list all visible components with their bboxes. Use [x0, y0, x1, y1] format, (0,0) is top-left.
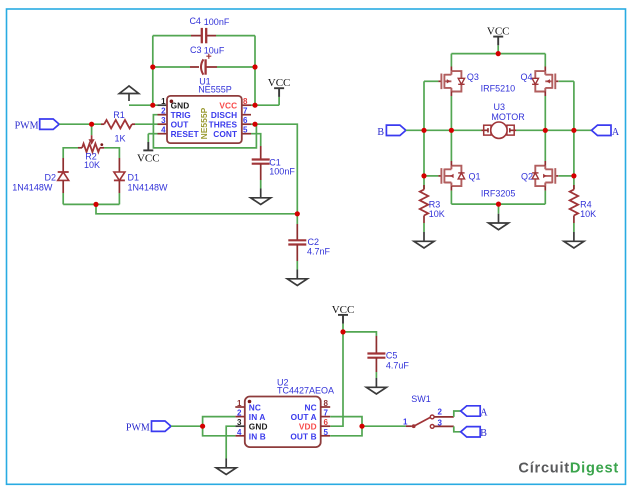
wire C1 to ground — [260, 180, 262, 189]
resistor R1 1K — [104, 120, 132, 128]
svg-text:1: 1 — [403, 417, 408, 426]
wire to motor left — [451, 129, 482, 131]
power VCC (U1 pin8) — [268, 77, 291, 105]
svg-text:CírcuitDigest: CírcuitDigest — [518, 460, 619, 476]
svg-text:MOTOR: MOTOR — [491, 112, 525, 122]
svg-text:C4: C4 — [189, 16, 201, 26]
ground (C2) — [287, 270, 307, 286]
svg-text:Q3: Q3 — [467, 72, 479, 82]
U2 pin 2 stub — [235, 416, 245, 418]
port PWM (driver input) — [152, 421, 172, 431]
wire R1 to OUT — [135, 123, 158, 125]
Q4 source lead — [544, 92, 546, 97]
wire C2 to ground — [296, 261, 298, 270]
U1 pin 6 stub — [242, 123, 251, 125]
motor U3 — [482, 128, 489, 132]
svg-text:1: 1 — [161, 97, 166, 106]
wire motor rail to Q1 — [450, 130, 452, 161]
junction pin1 / loop — [150, 103, 155, 108]
svg-text:GND: GND — [171, 101, 190, 111]
Q3 source lead — [450, 92, 452, 97]
svg-text:A: A — [480, 407, 488, 418]
svg-text:6: 6 — [324, 418, 329, 427]
svg-text:VCC: VCC — [332, 304, 355, 316]
port A (driver) — [461, 406, 481, 416]
junction PWM node — [89, 122, 94, 127]
svg-text:VCC: VCC — [137, 152, 160, 164]
capacitor C3 leads — [190, 66, 217, 68]
U1 pin 5 stub — [242, 133, 251, 135]
svg-text:8: 8 — [243, 97, 248, 106]
svg-text:B: B — [480, 428, 487, 439]
wire to C2 — [296, 214, 298, 224]
capacitor C4 leads — [191, 35, 216, 37]
capacitor C1 lead top — [260, 146, 262, 160]
ground (R3) — [414, 232, 434, 248]
svg-text:R4: R4 — [580, 199, 592, 209]
junction motor left — [449, 128, 454, 133]
wire R2 to D2 — [63, 148, 78, 158]
junction B / gate bus — [421, 128, 426, 133]
resistor R3 lead top — [423, 185, 425, 190]
wire Q2 gate — [559, 175, 574, 177]
svg-text:7: 7 — [324, 409, 329, 418]
wire GND pin to ground — [226, 426, 235, 458]
diode D2 1N4148W — [58, 171, 69, 173]
svg-text:R1: R1 — [113, 110, 125, 120]
capacitor C5 lead top — [375, 336, 377, 354]
transistor Q1 IRF3205 — [438, 166, 464, 186]
svg-text:2: 2 — [438, 407, 443, 416]
junction diode bus — [93, 202, 98, 207]
diode D1 lead bottom — [118, 180, 120, 193]
resistor R4 lead bottom — [573, 216, 575, 224]
wire C4 loop left vertical — [152, 36, 154, 106]
U2 pin 4 stub — [235, 435, 245, 437]
capacitor C2 4.7nF — [288, 240, 306, 244]
wire to IN B — [203, 426, 236, 436]
svg-text:NC: NC — [249, 403, 261, 413]
svg-text:A: A — [612, 127, 620, 138]
junction PWM split — [200, 424, 205, 429]
wire R4 to ground — [573, 223, 575, 232]
junction pin8 / VCC — [252, 103, 257, 108]
Q2 source lead — [544, 186, 546, 191]
capacitor C1 lead bottom — [260, 164, 262, 180]
wire left gate bus — [423, 81, 425, 189]
svg-text:10K: 10K — [84, 160, 100, 170]
ground (H-bridge) — [489, 214, 509, 230]
switch SW1 — [412, 415, 434, 428]
svg-text:C2: C2 — [308, 237, 320, 247]
diode D1 1N4148W — [114, 172, 125, 180]
svg-text:3: 3 — [237, 418, 242, 427]
wire C4 top left — [153, 35, 191, 37]
diode D2 lead top — [62, 158, 64, 172]
junction bottom rail — [496, 202, 501, 207]
SW1 throw 2 lead — [434, 416, 454, 418]
svg-text:B: B — [377, 127, 384, 138]
wire to port A — [574, 129, 592, 131]
SW1 common lead — [406, 425, 412, 427]
svg-text:10K: 10K — [580, 209, 596, 219]
driver U2 TC4427AEOA body — [245, 397, 321, 448]
svg-text:Q1: Q1 — [469, 172, 481, 182]
power VCC (driver) — [332, 304, 355, 332]
power VCC (H-bridge) — [487, 26, 510, 54]
junction C3 left — [150, 64, 155, 69]
junction C2 node — [295, 211, 300, 216]
svg-text:NC: NC — [305, 403, 317, 413]
U2 pin 1 stub (NC) — [235, 406, 245, 408]
transistor Q2 IRF3205 — [532, 166, 558, 186]
wire C4 top right — [216, 35, 255, 37]
U2 pin1 marker — [248, 400, 252, 404]
svg-text:IRF3205: IRF3205 — [481, 189, 516, 199]
wire THRES to C2 node — [255, 124, 297, 214]
wire VCC to VDD — [330, 332, 343, 426]
port B (H-bridge) — [386, 125, 406, 135]
svg-text:PWM: PWM — [15, 121, 39, 132]
svg-text:4.7nF: 4.7nF — [307, 247, 331, 257]
svg-text:IRF5210: IRF5210 — [481, 84, 516, 94]
svg-text:100nF: 100nF — [269, 166, 295, 176]
U1 pin1 marker — [170, 100, 174, 104]
svg-text:7: 7 — [243, 107, 248, 116]
potentiometer R2 10K — [82, 144, 100, 152]
U2 pin 6 stub (VDD) — [321, 425, 331, 427]
capacitor C2 lead bottom — [296, 245, 298, 262]
U1 pin 2 stub — [158, 114, 168, 116]
resistor R1 lead left — [101, 123, 104, 125]
wire pin1 to chassis — [129, 104, 158, 106]
junction motor right — [543, 128, 548, 133]
ground (U2) — [216, 459, 236, 475]
U2 pin 3 stub (GND) — [235, 425, 245, 427]
svg-text:2: 2 — [161, 107, 166, 116]
svg-text:4.7uF: 4.7uF — [386, 360, 410, 370]
junction Q2 gate — [571, 173, 576, 178]
R2 wiper arrow — [91, 135, 93, 140]
svg-text:GND: GND — [249, 422, 268, 432]
capacitor C4 100nF — [202, 28, 206, 43]
U1 pin 3 stub — [158, 123, 168, 125]
capacitor C5 4.7uF — [367, 354, 385, 358]
svg-text:D2: D2 — [44, 172, 56, 182]
wire C4 loop right vertical — [254, 36, 256, 106]
wire OUT A — [330, 417, 362, 427]
svg-text:TC4427AEOA: TC4427AEOA — [277, 386, 334, 396]
Q2 drain lead — [544, 161, 546, 166]
resistor R3 10K — [420, 190, 428, 216]
wire D2 to bottom — [62, 193, 64, 204]
junction A / gate bus — [571, 128, 576, 133]
wire H-bridge top rail — [451, 53, 545, 55]
wire R2 to D1 — [104, 148, 119, 158]
svg-text:10uF: 10uF — [204, 46, 225, 56]
svg-text:IN B: IN B — [249, 431, 266, 441]
svg-text:D1: D1 — [128, 172, 140, 182]
transistor Q4 IRF5210 — [532, 71, 558, 91]
svg-text:5: 5 — [324, 428, 329, 437]
wire B to left column — [406, 129, 452, 131]
ground (C5) — [366, 378, 386, 394]
svg-text:2: 2 — [237, 409, 242, 418]
svg-text:Q2: Q2 — [521, 172, 533, 182]
wire Q3 gate — [424, 80, 438, 82]
Q1 source lead — [450, 186, 452, 191]
wire PWM to junction — [171, 425, 203, 427]
C3 plus sign — [206, 54, 211, 59]
wire CONT to C1 — [251, 134, 261, 146]
junction pin6 THRES — [252, 122, 257, 127]
R2 lead right — [100, 147, 104, 149]
capacitor C2 lead top — [296, 224, 298, 240]
R2 lead left — [78, 147, 82, 149]
svg-text:TRIG: TRIG — [171, 110, 191, 120]
wire motor rail to Q2 — [544, 130, 546, 161]
svg-text:C3: C3 — [190, 45, 202, 55]
diode D2 lead bottom — [62, 180, 64, 193]
capacitor C5 lead bottom — [375, 358, 377, 372]
port PWM (555 input) — [40, 119, 60, 129]
op-amp/timer U1 NE555P body — [167, 96, 242, 143]
svg-text:OUT: OUT — [171, 120, 189, 130]
svg-text:4: 4 — [161, 126, 166, 135]
svg-text:CONT: CONT — [213, 129, 237, 139]
U1 pin 1 stub (GND) — [158, 104, 168, 106]
resistor R1 lead right — [132, 123, 135, 125]
wire VCC to C5 — [343, 332, 376, 336]
resistor R3 lead bottom — [423, 216, 425, 224]
svg-text:NE555P: NE555P — [199, 107, 209, 139]
svg-text:VCC: VCC — [268, 77, 291, 89]
wire H-bridge bottom rail — [451, 203, 545, 205]
svg-text:4: 4 — [237, 428, 242, 437]
Q1 drain lead — [450, 161, 452, 166]
junction top rail / VCC — [496, 51, 501, 56]
wire Q3 to motor rail — [450, 96, 452, 130]
wire C5 to ground — [375, 372, 377, 378]
svg-text:10K: 10K — [429, 209, 445, 219]
wire Q1 gate — [424, 175, 438, 177]
svg-text:3: 3 — [161, 116, 166, 125]
wire SW1 to port A — [454, 411, 461, 417]
power VCC (U1 RESET) (inverted) — [137, 134, 160, 165]
ground (C1) — [251, 189, 271, 205]
wire C3 left — [153, 66, 190, 68]
capacitor C3 10uF (polarized) — [201, 59, 203, 74]
wire TRIG-THRES wrap — [153, 115, 256, 148]
svg-text:OUT A: OUT A — [291, 412, 317, 422]
wire rail to Q4 drain — [544, 54, 546, 67]
wire pin6 short — [251, 123, 255, 125]
junction C3 right — [252, 64, 257, 69]
svg-text:VDD: VDD — [299, 422, 317, 432]
wire to SW1 — [362, 425, 406, 427]
svg-text:1N4148W: 1N4148W — [128, 182, 169, 192]
Q3 drain lead — [450, 67, 452, 72]
Q4 drain lead — [544, 67, 546, 72]
wire right gate bus — [573, 81, 575, 189]
svg-text:C5: C5 — [386, 350, 398, 360]
wire R3 to ground — [423, 223, 425, 232]
wire Q4 to motor rail — [544, 96, 546, 130]
wire D1 to bottom — [118, 193, 120, 204]
svg-text:1K: 1K — [114, 134, 125, 144]
wire to IN A — [203, 417, 236, 427]
U2 pin 7 stub — [321, 416, 331, 418]
wire OUT B — [330, 426, 362, 436]
svg-text:RESET: RESET — [171, 129, 199, 139]
port B (driver) — [461, 427, 481, 437]
transistor Q3 IRF5210 — [438, 71, 464, 91]
wire rail to Q3 drain — [450, 54, 452, 67]
wire Q2 to bottom rail — [544, 191, 546, 205]
resistor R4 lead top — [573, 185, 575, 190]
ground (R4) — [564, 232, 584, 248]
wire rail to ground — [498, 204, 500, 214]
svg-text:NE555P: NE555P — [198, 84, 232, 94]
svg-text:5: 5 — [243, 126, 248, 135]
port A (H-bridge) — [592, 125, 612, 135]
svg-text:1: 1 — [237, 399, 242, 408]
svg-text:IN A: IN A — [249, 412, 266, 422]
capacitor C1 100nF — [252, 160, 270, 164]
U2 pin 5 stub — [321, 435, 331, 437]
wire Q1 to bottom rail — [450, 191, 452, 205]
wire to A bus — [545, 129, 574, 131]
svg-text:PWM: PWM — [126, 423, 150, 434]
wire wiper — [91, 124, 93, 135]
R2 pin marker — [100, 143, 103, 146]
junction Q1 gate — [421, 173, 426, 178]
junction outputs — [359, 424, 364, 429]
svg-text:Q4: Q4 — [520, 72, 532, 82]
svg-text:1N4148W: 1N4148W — [12, 182, 53, 192]
svg-text:VCC: VCC — [219, 101, 237, 111]
junction VCC / C5 — [340, 329, 345, 334]
wire pin8 short — [251, 104, 255, 106]
svg-text:U3: U3 — [494, 102, 506, 112]
U1 pin 4 stub — [158, 133, 168, 135]
U1 pin 7 stub (DISCH, unconnected) — [242, 114, 251, 116]
wire pin8 to VCC — [255, 104, 279, 106]
SW1 throw 3 lead — [434, 425, 454, 427]
U2 pin 8 stub (NC) — [321, 406, 331, 408]
wire diode bus to C2 node — [96, 204, 297, 213]
svg-text:6: 6 — [243, 116, 248, 125]
wire C3 right — [217, 66, 255, 68]
wire Q4 gate — [559, 80, 574, 82]
U1 pin 8 stub — [242, 104, 251, 106]
wire SW1 to port B — [454, 426, 461, 431]
svg-text:VCC: VCC — [487, 26, 510, 38]
svg-text:DISCH: DISCH — [211, 110, 237, 120]
chassis arrow symbol — [128, 94, 130, 102]
wire PWM to R1 — [59, 123, 101, 125]
wire diode bottom bus — [63, 203, 119, 205]
wire motor to right column — [516, 129, 545, 131]
svg-text:100nF: 100nF — [204, 17, 230, 27]
diode D1 lead top — [118, 158, 120, 172]
svg-text:SW1: SW1 — [411, 394, 431, 404]
svg-text:THRES: THRES — [209, 120, 238, 130]
resistor R4 10K — [570, 190, 578, 216]
wire RESET to VCC — [148, 133, 157, 135]
svg-text:OUT B: OUT B — [290, 431, 316, 441]
svg-text:R3: R3 — [429, 199, 441, 209]
svg-text:8: 8 — [324, 399, 329, 408]
